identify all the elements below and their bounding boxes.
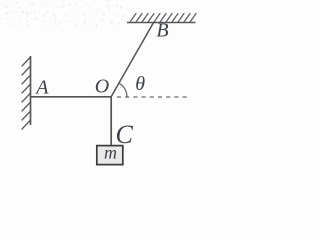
svg-text:O: O <box>95 76 109 98</box>
svg-text:C: C <box>116 120 134 149</box>
svg-text:m: m <box>104 143 117 163</box>
svg-text:A: A <box>34 76 49 98</box>
svg-text:B: B <box>156 20 168 42</box>
svg-text:θ: θ <box>135 73 145 95</box>
